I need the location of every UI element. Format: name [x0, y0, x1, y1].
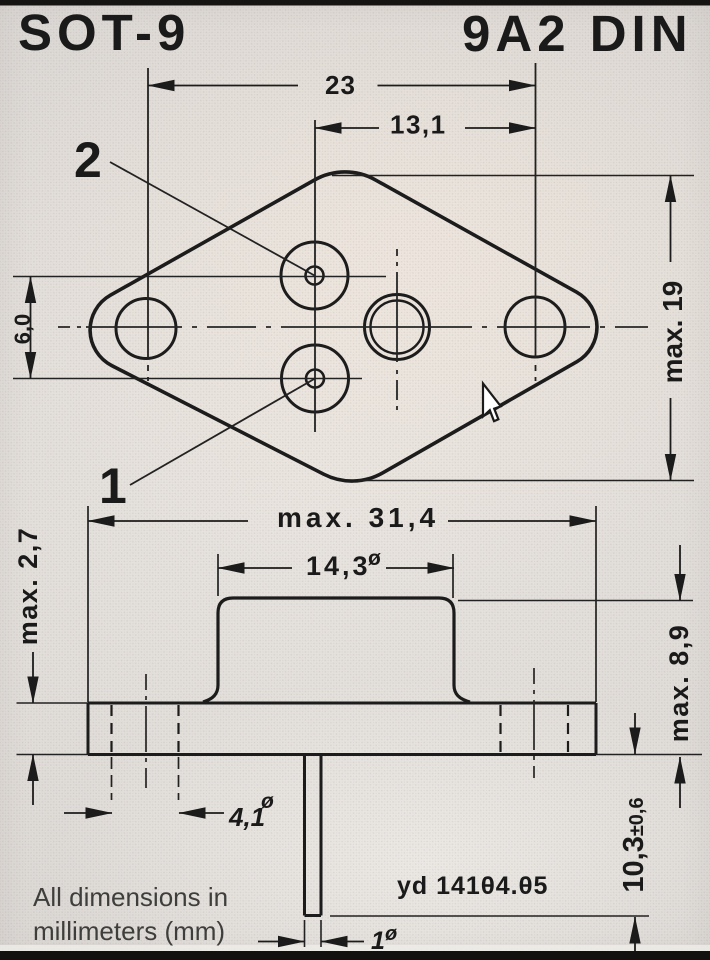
max.19 extension line top: [332, 175, 694, 177]
svg-text:SOT-9: SOT-9: [18, 4, 190, 61]
extension line x=596: [595, 506, 597, 702]
mouse cursor: [483, 384, 501, 422]
dimension 13,1: [315, 127, 379, 129]
can inner circle: [371, 301, 424, 354]
flange right edge: [595, 703, 598, 755]
bottom black bar: [0, 951, 710, 960]
bottom light strip: [0, 945, 710, 951]
top black bar: [0, 0, 710, 6]
svg-text:millimeters (mm): millimeters (mm): [33, 916, 225, 946]
dimension max.19 vertical: [670, 176, 672, 263]
svg-text:max. 2,7: max. 2,7: [13, 527, 43, 646]
dimension 14,3: [218, 567, 292, 569]
dimension 4,1: [64, 812, 112, 814]
extension line x=535.5 (right hole center): [535, 63, 537, 381]
pin end edge: [305, 914, 322, 917]
pin 1 circle (bottom): [282, 345, 349, 412]
svg-text:ø: ø: [368, 547, 381, 570]
hole centerline x=146: [145, 674, 147, 788]
max.19 extension line bottom: [358, 480, 694, 482]
below-flange dashed extension x=111.5: [111, 757, 113, 800]
hidden hole edge dashed x=111.5: [110, 705, 112, 754]
svg-text:ø: ø: [261, 790, 274, 813]
leader line to pin 1: [130, 379, 315, 486]
pin 2 center dot: [306, 267, 324, 285]
extension line x=453: [452, 554, 454, 598]
below-flange dashed extension x=178.5: [178, 757, 180, 800]
hidden hole edge dashed x=500.5: [499, 705, 501, 754]
right mounting hole: [505, 297, 565, 357]
dimension max.8,9: [679, 545, 681, 601]
hidden hole edge dashed x=178.5: [177, 705, 179, 754]
can cap profile: [203, 598, 470, 702]
dimension 6,0 vertical line with arrows: [30, 277, 32, 328]
extension line x=88: [87, 506, 89, 702]
extension line x=148 (left hole center): [147, 68, 149, 381]
extension line x=315 (pin column): [314, 120, 316, 432]
flange left edge: [87, 703, 90, 755]
svg-text:2: 2: [74, 132, 102, 188]
hidden hole edge dashed x=568: [567, 705, 569, 754]
extension line x=218: [217, 554, 219, 596]
svg-text:14,3: 14,3: [306, 551, 371, 581]
can vertical centerline: [396, 249, 398, 410]
can outer circle: [365, 295, 430, 360]
svg-text:4,1: 4,1: [228, 802, 265, 832]
left mounting hole: [116, 299, 176, 359]
6,0 extension line top: [13, 276, 386, 278]
svg-text:1: 1: [371, 927, 385, 955]
svg-text:6,0: 6,0: [10, 314, 35, 345]
hole centerline x=534: [533, 668, 535, 778]
barred zeros of drawing number: [484, 884, 530, 887]
svg-text:13,1: 13,1: [390, 110, 447, 140]
pin (lead): [305, 756, 322, 916]
svg-text:1: 1: [99, 458, 127, 514]
pin 1 center dot: [306, 370, 324, 388]
flange outline (top view, TO-3 diamond): [90, 172, 597, 481]
pin edge extensions below: [305, 920, 322, 947]
flange bottom edge with extensions: [17, 754, 89, 756]
pin end extension line right: [330, 915, 649, 917]
svg-text:max. 31,4: max. 31,4: [277, 502, 439, 533]
pin 2 circle (top): [281, 242, 348, 309]
svg-text:All dimensions in: All dimensions in: [33, 882, 228, 912]
dimension max.31,4: [88, 520, 248, 522]
dimension 10,3 +/- 0,6: [634, 713, 636, 754]
flange top edge with left extension: [17, 702, 89, 704]
svg-text:9A2 DIN: 9A2 DIN: [462, 5, 693, 62]
cap top extension line for 8,9: [458, 600, 693, 602]
dimension 1 (pin): [258, 941, 305, 943]
leader line to pin 2: [110, 162, 315, 276]
horizontal centerline of top view: [58, 326, 648, 328]
6,0 extension line bottom: [13, 378, 362, 380]
svg-text:23: 23: [325, 70, 356, 100]
svg-text:max. 8,9: max. 8,9: [664, 624, 694, 743]
dimension 23: [148, 85, 298, 87]
svg-text:ø: ø: [385, 923, 397, 945]
svg-text:max. 19: max. 19: [657, 281, 688, 384]
